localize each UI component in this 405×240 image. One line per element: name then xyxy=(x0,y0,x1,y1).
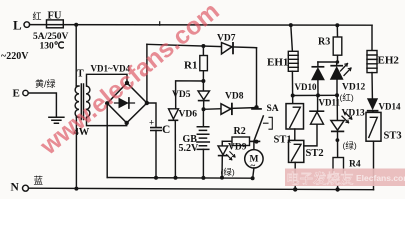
svg-text:VD10: VD10 xyxy=(295,82,317,92)
svg-text:(绿): (绿) xyxy=(343,141,357,151)
svg-text:VD12: VD12 xyxy=(342,83,365,93)
diode VD11 xyxy=(304,95,324,145)
motor M xyxy=(245,142,263,179)
wire secondary top to bridge xyxy=(87,74,128,86)
node R3 bottom xyxy=(336,60,340,64)
wire primary top xyxy=(75,25,77,86)
wire ST1 to ST2 xyxy=(294,129,296,140)
bridge rectifier VD1~VD4 xyxy=(107,83,147,123)
resistor R1 xyxy=(200,46,208,81)
svg-text:黄/绿: 黄/绿 xyxy=(35,78,56,89)
node bridge top xyxy=(125,81,129,85)
svg-text:L: L xyxy=(13,18,22,33)
transformer T core xyxy=(81,84,83,120)
thermostat ST1 xyxy=(286,104,304,129)
LED VD13 xyxy=(331,95,352,157)
svg-text:VD13: VD13 xyxy=(342,109,365,119)
svg-text:EH2: EH2 xyxy=(378,55,400,67)
diode VD5 xyxy=(198,81,210,109)
wire indicator node line xyxy=(293,94,338,96)
svg-text:VD7: VD7 xyxy=(217,34,236,44)
svg-text:VD5: VD5 xyxy=(172,90,191,100)
resistor R3 xyxy=(333,25,342,62)
LED VD12 xyxy=(330,62,351,95)
node bridge left xyxy=(105,101,109,105)
diode VD6 xyxy=(169,109,179,178)
wire EH1 to ST1 xyxy=(291,71,293,103)
svg-text:(绿): (绿) xyxy=(221,167,235,177)
wire N bus xyxy=(29,188,374,190)
svg-text:C: C xyxy=(162,124,170,136)
watermark band bottom right xyxy=(285,169,405,187)
node ST2-N xyxy=(293,187,297,191)
diode VD14 xyxy=(367,98,378,112)
resistor R4 xyxy=(333,158,344,190)
terminal L xyxy=(24,22,30,28)
node GB-rail xyxy=(201,176,205,180)
svg-text:ST3: ST3 xyxy=(384,131,402,142)
wire ST3 to N bus xyxy=(373,141,375,190)
svg-text:蓝: 蓝 xyxy=(34,175,44,187)
svg-text:SA: SA xyxy=(267,104,279,114)
junction tick xyxy=(159,22,161,25)
terminal E xyxy=(23,90,28,95)
thermostat ST2 xyxy=(289,140,304,162)
wire primary bottom to N bus xyxy=(75,117,77,188)
svg-text:E: E xyxy=(13,87,20,99)
transformer T primary winding xyxy=(75,86,79,117)
switch SA xyxy=(250,109,273,141)
wire bridge plus to C xyxy=(147,103,156,127)
thermostat ST3 xyxy=(366,112,381,141)
heater EH2 xyxy=(367,51,377,99)
node C-rail xyxy=(154,176,158,180)
svg-text:ST2: ST2 xyxy=(306,148,324,159)
node R4-N xyxy=(335,187,339,191)
svg-text:红: 红 xyxy=(33,11,42,22)
node EH1-indicator xyxy=(291,94,295,98)
svg-text:电子发烧友: 电子发烧友 xyxy=(286,171,354,187)
svg-text:~220V: ~220V xyxy=(1,51,29,62)
node SA-M-R2 xyxy=(254,140,258,144)
battery GB xyxy=(197,109,209,178)
wire VD7 corner down xyxy=(256,48,258,108)
svg-text:FU: FU xyxy=(48,11,62,22)
svg-text:130℃: 130℃ xyxy=(40,41,65,52)
node primary-N xyxy=(74,187,78,191)
svg-text:VD6: VD6 xyxy=(179,110,198,120)
svg-text:N: N xyxy=(11,181,20,193)
svg-text:T: T xyxy=(77,69,84,80)
svg-text:R4: R4 xyxy=(349,159,361,169)
node M-rail xyxy=(251,176,255,180)
node bridge bottom xyxy=(125,121,129,125)
svg-text:EH1: EH1 xyxy=(267,57,288,69)
transformer T secondary winding xyxy=(86,86,90,117)
node VD6-rail xyxy=(174,176,178,180)
wire node A to node B xyxy=(204,108,257,110)
node bridge right xyxy=(145,101,149,105)
wire C to rail xyxy=(155,131,157,178)
terminal N xyxy=(23,185,29,191)
svg-text:ST1: ST1 xyxy=(274,135,292,146)
svg-text:5.2V: 5.2V xyxy=(179,143,200,154)
svg-text:(红): (红) xyxy=(340,93,354,103)
svg-text:VD11: VD11 xyxy=(319,98,341,108)
svg-text:5A/250V: 5A/250V xyxy=(33,32,69,42)
wire R1 bottom to VD6 branch xyxy=(176,81,204,109)
diode VD8 xyxy=(221,104,232,115)
wire DC rail xyxy=(107,177,252,180)
node top-EH1 xyxy=(289,23,293,27)
node R1 top xyxy=(201,44,205,48)
svg-text:VD9: VD9 xyxy=(228,143,247,153)
node VD10-line xyxy=(316,93,320,97)
svg-text:R2: R2 xyxy=(234,126,246,137)
capacitor C xyxy=(151,128,161,131)
diode VD7 xyxy=(222,43,234,54)
wire top bus xyxy=(30,24,372,27)
svg-text:~: ~ xyxy=(251,161,256,171)
wire bridge minus to DC rail xyxy=(106,103,108,177)
diode VD10 xyxy=(311,62,325,95)
bridge inner diode xyxy=(115,98,135,109)
node R1 bottom xyxy=(201,79,205,83)
LED VD9 xyxy=(218,141,235,177)
wire EH2 drop xyxy=(371,25,373,50)
wire R3 bottom link xyxy=(318,61,338,63)
node VD12-line xyxy=(335,93,339,97)
wire E to ground xyxy=(28,93,56,117)
svg-text:VD14: VD14 xyxy=(379,102,401,112)
svg-text:R1: R1 xyxy=(184,60,197,72)
svg-text:R3: R3 xyxy=(318,37,330,48)
wire secondary bottom to bridge xyxy=(87,117,127,125)
wire ST2 to N bus xyxy=(294,162,296,189)
svg-text:+: + xyxy=(149,118,154,128)
node VD9-rail xyxy=(220,176,224,180)
node A xyxy=(202,107,206,111)
node top-R3 xyxy=(335,23,339,27)
node B xyxy=(254,105,258,109)
wire DC top line xyxy=(147,44,257,47)
svg-text:VD8: VD8 xyxy=(225,92,244,102)
resistor R2 xyxy=(222,137,249,146)
ground xyxy=(49,117,64,123)
wire bridge plus up xyxy=(146,44,148,103)
node VD13-R4 xyxy=(336,138,340,142)
heater EH1 xyxy=(288,25,298,71)
fuse FU xyxy=(47,20,64,28)
svg-text:Elecfans.com: Elecfans.com xyxy=(356,173,405,183)
node top-transformer xyxy=(74,23,78,27)
